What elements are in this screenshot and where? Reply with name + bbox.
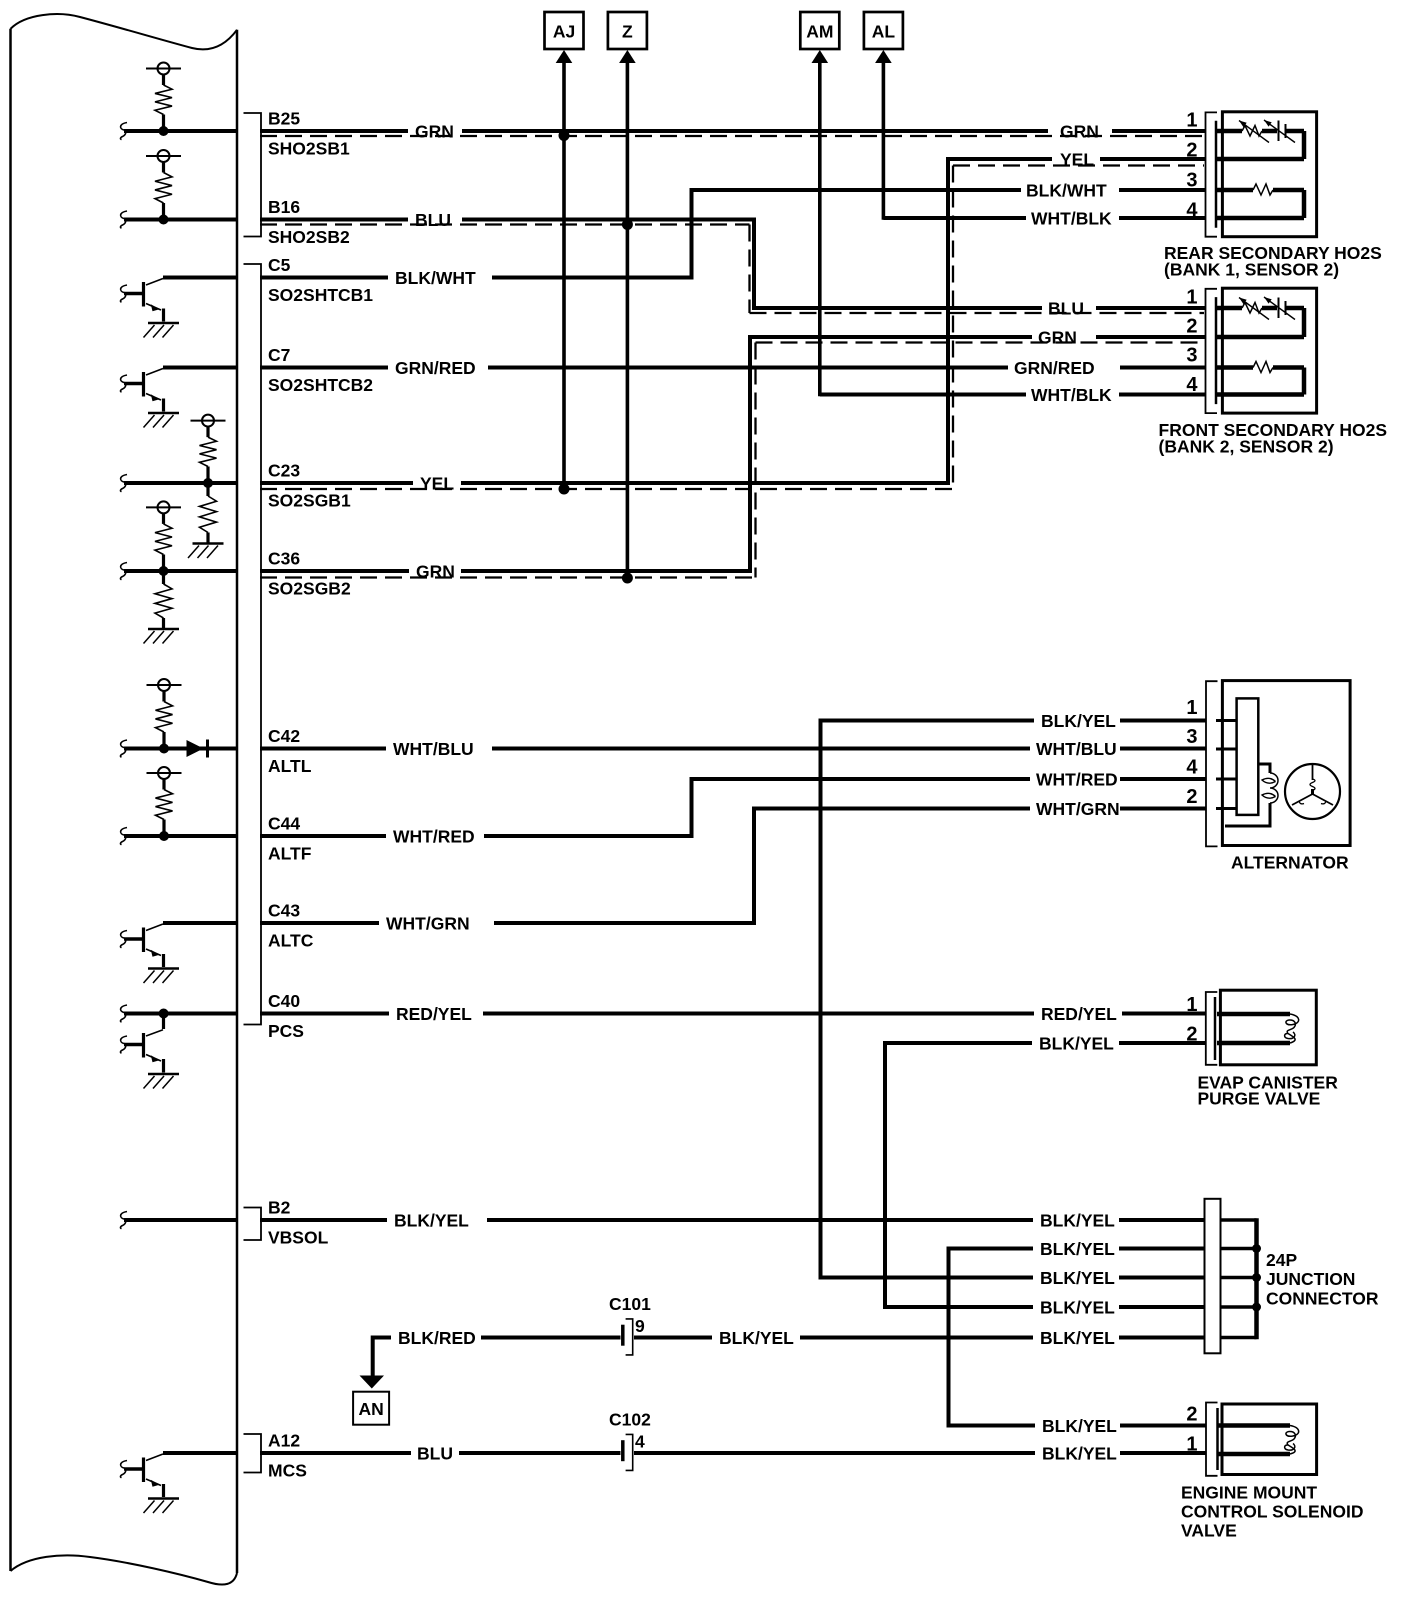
svg-text:ALTL: ALTL — [268, 756, 312, 776]
svg-text:C44: C44 — [268, 814, 300, 834]
svg-text:1: 1 — [1186, 1434, 1197, 1456]
svg-text:C40: C40 — [268, 991, 300, 1011]
svg-text:BLK/YEL: BLK/YEL — [1040, 1239, 1115, 1259]
svg-text:C5: C5 — [268, 255, 291, 275]
svg-text:BLK/YEL: BLK/YEL — [1040, 1211, 1115, 1231]
svg-text:BLK/YEL: BLK/YEL — [1039, 1034, 1114, 1054]
svg-text:CONNECTOR: CONNECTOR — [1266, 1289, 1379, 1309]
svg-text:BLK/YEL: BLK/YEL — [1040, 1298, 1115, 1318]
svg-text:SO2SHTCB2: SO2SHTCB2 — [268, 375, 373, 395]
svg-text:1: 1 — [1186, 110, 1197, 132]
svg-text:2: 2 — [1186, 1404, 1197, 1426]
svg-text:3: 3 — [1186, 726, 1197, 748]
svg-text:ENGINE MOUNT: ENGINE MOUNT — [1181, 1483, 1317, 1503]
svg-text:RED/YEL: RED/YEL — [396, 1004, 472, 1024]
svg-text:4: 4 — [1186, 757, 1198, 779]
svg-text:9: 9 — [635, 1316, 645, 1336]
svg-text:B16: B16 — [268, 197, 300, 217]
svg-text:3: 3 — [1186, 170, 1197, 192]
svg-text:BLK/YEL: BLK/YEL — [1040, 1268, 1115, 1288]
svg-text:WHT/BLK: WHT/BLK — [1031, 385, 1112, 405]
svg-text:(BANK 1, SENSOR 2): (BANK 1, SENSOR 2) — [1164, 260, 1339, 280]
svg-text:VBSOL: VBSOL — [268, 1228, 329, 1248]
svg-text:2: 2 — [1186, 316, 1197, 338]
svg-text:C7: C7 — [268, 345, 290, 365]
svg-text:VALVE: VALVE — [1181, 1521, 1237, 1541]
svg-text:MCS: MCS — [268, 1461, 307, 1481]
svg-text:BLU: BLU — [417, 1444, 453, 1464]
svg-text:1: 1 — [1186, 697, 1197, 719]
svg-text:BLK/WHT: BLK/WHT — [1026, 181, 1107, 201]
svg-text:B25: B25 — [268, 109, 300, 129]
svg-text:SHO2SB1: SHO2SB1 — [268, 139, 350, 159]
svg-text:JUNCTION: JUNCTION — [1266, 1269, 1355, 1289]
svg-text:4: 4 — [635, 1432, 645, 1452]
svg-text:1: 1 — [1186, 994, 1197, 1016]
svg-text:BLK/YEL: BLK/YEL — [1041, 711, 1116, 731]
svg-text:GRN: GRN — [415, 122, 454, 142]
svg-text:C101: C101 — [609, 1294, 651, 1314]
svg-text:BLK/RED: BLK/RED — [398, 1328, 476, 1348]
svg-text:SO2SGB1: SO2SGB1 — [268, 491, 351, 511]
svg-text:B2: B2 — [268, 1198, 291, 1218]
svg-text:(BANK 2, SENSOR 2): (BANK 2, SENSOR 2) — [1159, 437, 1334, 457]
svg-text:AN: AN — [359, 1399, 384, 1419]
svg-text:WHT/BLU: WHT/BLU — [393, 739, 474, 759]
svg-text:1: 1 — [1186, 287, 1197, 309]
svg-text:C36: C36 — [268, 549, 300, 569]
svg-text:PCS: PCS — [268, 1021, 304, 1041]
svg-text:BLK/WHT: BLK/WHT — [395, 268, 476, 288]
svg-text:4: 4 — [1186, 374, 1198, 396]
svg-text:CONTROL SOLENOID: CONTROL SOLENOID — [1181, 1502, 1363, 1522]
svg-text:BLK/YEL: BLK/YEL — [1040, 1328, 1115, 1348]
svg-text:YEL: YEL — [420, 474, 454, 494]
svg-text:A12: A12 — [268, 1431, 300, 1451]
svg-text:BLK/YEL: BLK/YEL — [394, 1211, 469, 1231]
svg-text:WHT/BLU: WHT/BLU — [1036, 739, 1117, 759]
svg-text:ALTF: ALTF — [268, 844, 312, 864]
svg-text:BLK/YEL: BLK/YEL — [719, 1328, 794, 1348]
svg-text:C23: C23 — [268, 461, 300, 481]
svg-text:BLK/YEL: BLK/YEL — [1042, 1444, 1117, 1464]
svg-text:GRN/RED: GRN/RED — [1014, 358, 1095, 378]
svg-text:WHT/BLK: WHT/BLK — [1031, 209, 1112, 229]
svg-text:2: 2 — [1186, 140, 1197, 162]
svg-text:YEL: YEL — [1060, 150, 1094, 170]
svg-text:GRN: GRN — [416, 562, 455, 582]
svg-text:C102: C102 — [609, 1410, 651, 1430]
svg-text:Z: Z — [622, 22, 633, 42]
svg-text:C42: C42 — [268, 726, 300, 746]
svg-text:WHT/RED: WHT/RED — [1036, 770, 1118, 790]
svg-text:4: 4 — [1186, 200, 1198, 222]
svg-text:GRN: GRN — [1038, 328, 1077, 348]
svg-text:WHT/GRN: WHT/GRN — [386, 914, 470, 934]
svg-text:2: 2 — [1186, 1024, 1197, 1046]
svg-text:RED/YEL: RED/YEL — [1041, 1004, 1117, 1024]
svg-text:AJ: AJ — [553, 22, 575, 42]
svg-text:BLK/YEL: BLK/YEL — [1042, 1416, 1117, 1436]
svg-text:BLU: BLU — [1048, 299, 1084, 319]
svg-text:BLU: BLU — [415, 210, 451, 230]
svg-text:SO2SHTCB1: SO2SHTCB1 — [268, 285, 373, 305]
svg-text:GRN/RED: GRN/RED — [395, 358, 476, 378]
svg-text:AM: AM — [806, 22, 833, 42]
svg-text:24P: 24P — [1266, 1250, 1297, 1270]
svg-text:SO2SGB2: SO2SGB2 — [268, 579, 351, 599]
svg-text:ALTC: ALTC — [268, 931, 314, 951]
svg-text:AL: AL — [872, 22, 896, 42]
svg-text:ALTERNATOR: ALTERNATOR — [1231, 853, 1349, 873]
svg-text:2: 2 — [1186, 786, 1197, 808]
svg-text:C43: C43 — [268, 901, 300, 921]
svg-text:3: 3 — [1186, 345, 1197, 367]
svg-text:WHT/RED: WHT/RED — [393, 827, 475, 847]
svg-text:WHT/GRN: WHT/GRN — [1036, 799, 1120, 819]
svg-text:GRN: GRN — [1060, 122, 1099, 142]
svg-text:PURGE VALVE: PURGE VALVE — [1198, 1089, 1321, 1109]
svg-text:SHO2SB2: SHO2SB2 — [268, 227, 350, 247]
